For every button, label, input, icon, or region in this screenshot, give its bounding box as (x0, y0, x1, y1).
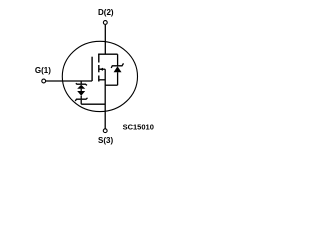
svg-text:G(1): G(1) (35, 66, 51, 75)
svg-text:SC15010: SC15010 (123, 122, 154, 131)
svg-text:D(2): D(2) (98, 8, 114, 17)
svg-text:S(3): S(3) (98, 136, 113, 145)
